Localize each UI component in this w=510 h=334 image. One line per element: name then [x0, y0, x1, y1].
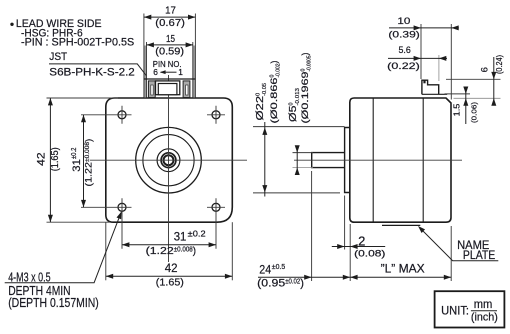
front view boss inner circle [143, 135, 194, 186]
svg-text:1: 1 [178, 67, 183, 77]
name plate line [382, 224, 420, 226]
tap leader line [5, 213, 121, 283]
svg-text:±0.5: ±0.5 [272, 262, 285, 271]
svg-text:(0.67): (0.67) [155, 18, 185, 29]
dim 24 shaft length [311, 171, 313, 281]
dim 42 vertical left [47, 97, 119, 99]
svg-text:”L” MAX: ”L” MAX [381, 261, 425, 275]
connector front: side walls [144, 46, 147, 98]
svg-text:5.6: 5.6 [399, 45, 411, 56]
front view bearing boss circle [157, 149, 180, 172]
svg-text:(0.06): (0.06) [470, 101, 479, 123]
side view shaft [312, 153, 345, 168]
svg-text:JST: JST [49, 51, 67, 63]
dim 10 connector position [420, 24, 422, 79]
svg-text:6: 6 [480, 67, 491, 72]
svg-text:10: 10 [397, 16, 410, 27]
connector front: center box [156, 81, 180, 95]
svg-text:31: 31 [174, 231, 187, 243]
mounting hole bottom-right [212, 203, 220, 211]
dim 17 connector outer width [144, 16, 196, 18]
svg-text:-PIN : SPH-002T-P0.5S: -PIN : SPH-002T-P0.5S [21, 37, 134, 49]
dim 42 bottom [105, 222, 107, 280]
dim L MAX [450, 226, 452, 281]
mounting hole top-right [212, 111, 220, 119]
svg-text:42: 42 [165, 261, 178, 275]
svg-text:PLATE: PLATE [463, 248, 495, 262]
front view horizontal centerline [90, 159, 247, 161]
dim 1.5 platform height [445, 93, 471, 95]
lead wire note text [10, 23, 13, 26]
dim 6 connector height [446, 78, 501, 80]
svg-text:S6B-PH-K-S-2.2: S6B-PH-K-S-2.2 [49, 67, 135, 79]
dim 31 vertical left [83, 115, 85, 208]
svg-text:(DEPTH 0.157MIN): (DEPTH 0.157MIN) [8, 295, 99, 310]
front view vertical centerline [168, 75, 170, 262]
svg-text:(0.22): (0.22) [387, 61, 420, 72]
svg-text:(0.08): (0.08) [354, 248, 385, 259]
dim 15 connector inner width [147, 44, 194, 46]
side view end-bell joint lines [372, 98, 374, 222]
svg-text:±0.2: ±0.2 [188, 229, 207, 238]
dim 5.6 connector width [438, 55, 440, 81]
svg-text:(1.65): (1.65) [50, 147, 61, 171]
side view body [350, 98, 451, 222]
svg-text:6: 6 [153, 67, 158, 77]
svg-text:UNIT:: UNIT: [441, 305, 469, 318]
dim O22 boss diameter [253, 126, 345, 128]
connector front: left latch block [148, 81, 155, 98]
svg-text:15: 15 [166, 34, 175, 45]
svg-text:17: 17 [165, 6, 176, 17]
JST leader line [49, 64, 146, 76]
svg-text:(0.24): (0.24) [495, 55, 504, 74]
svg-text:2: 2 [358, 233, 365, 248]
svg-text:(1.65): (1.65) [156, 276, 184, 288]
side view pilot boss [345, 128, 350, 193]
svg-text:(0.59): (0.59) [155, 47, 184, 58]
dim O5 shaft diameter [293, 152, 314, 154]
front view pilot circle O22 [136, 127, 202, 193]
dim 31 bottom [122, 244, 216, 246]
svg-text:mm: mm [474, 297, 493, 311]
front view motor face outline [106, 98, 233, 222]
svg-text:24: 24 [259, 262, 271, 276]
unit box [435, 291, 505, 327]
mounting hole top-left [118, 111, 126, 119]
mounting hole bottom-left [118, 203, 126, 211]
svg-text:1.5: 1.5 [451, 103, 461, 116]
connector front: right latch block [183, 81, 190, 98]
connector front: housing bottom [144, 78, 196, 80]
side view connector [422, 80, 439, 94]
dim 2 boss depth [344, 196, 346, 250]
svg-text:(0.39): (0.39) [388, 30, 419, 41]
svg-text:42: 42 [35, 152, 47, 166]
side view centerline [294, 159, 462, 161]
side view connector platform [422, 93, 447, 95]
svg-text:(inch): (inch) [471, 311, 498, 323]
front view shaft circle O5 [161, 153, 176, 168]
front view shaft chamfer circle [164, 155, 174, 165]
